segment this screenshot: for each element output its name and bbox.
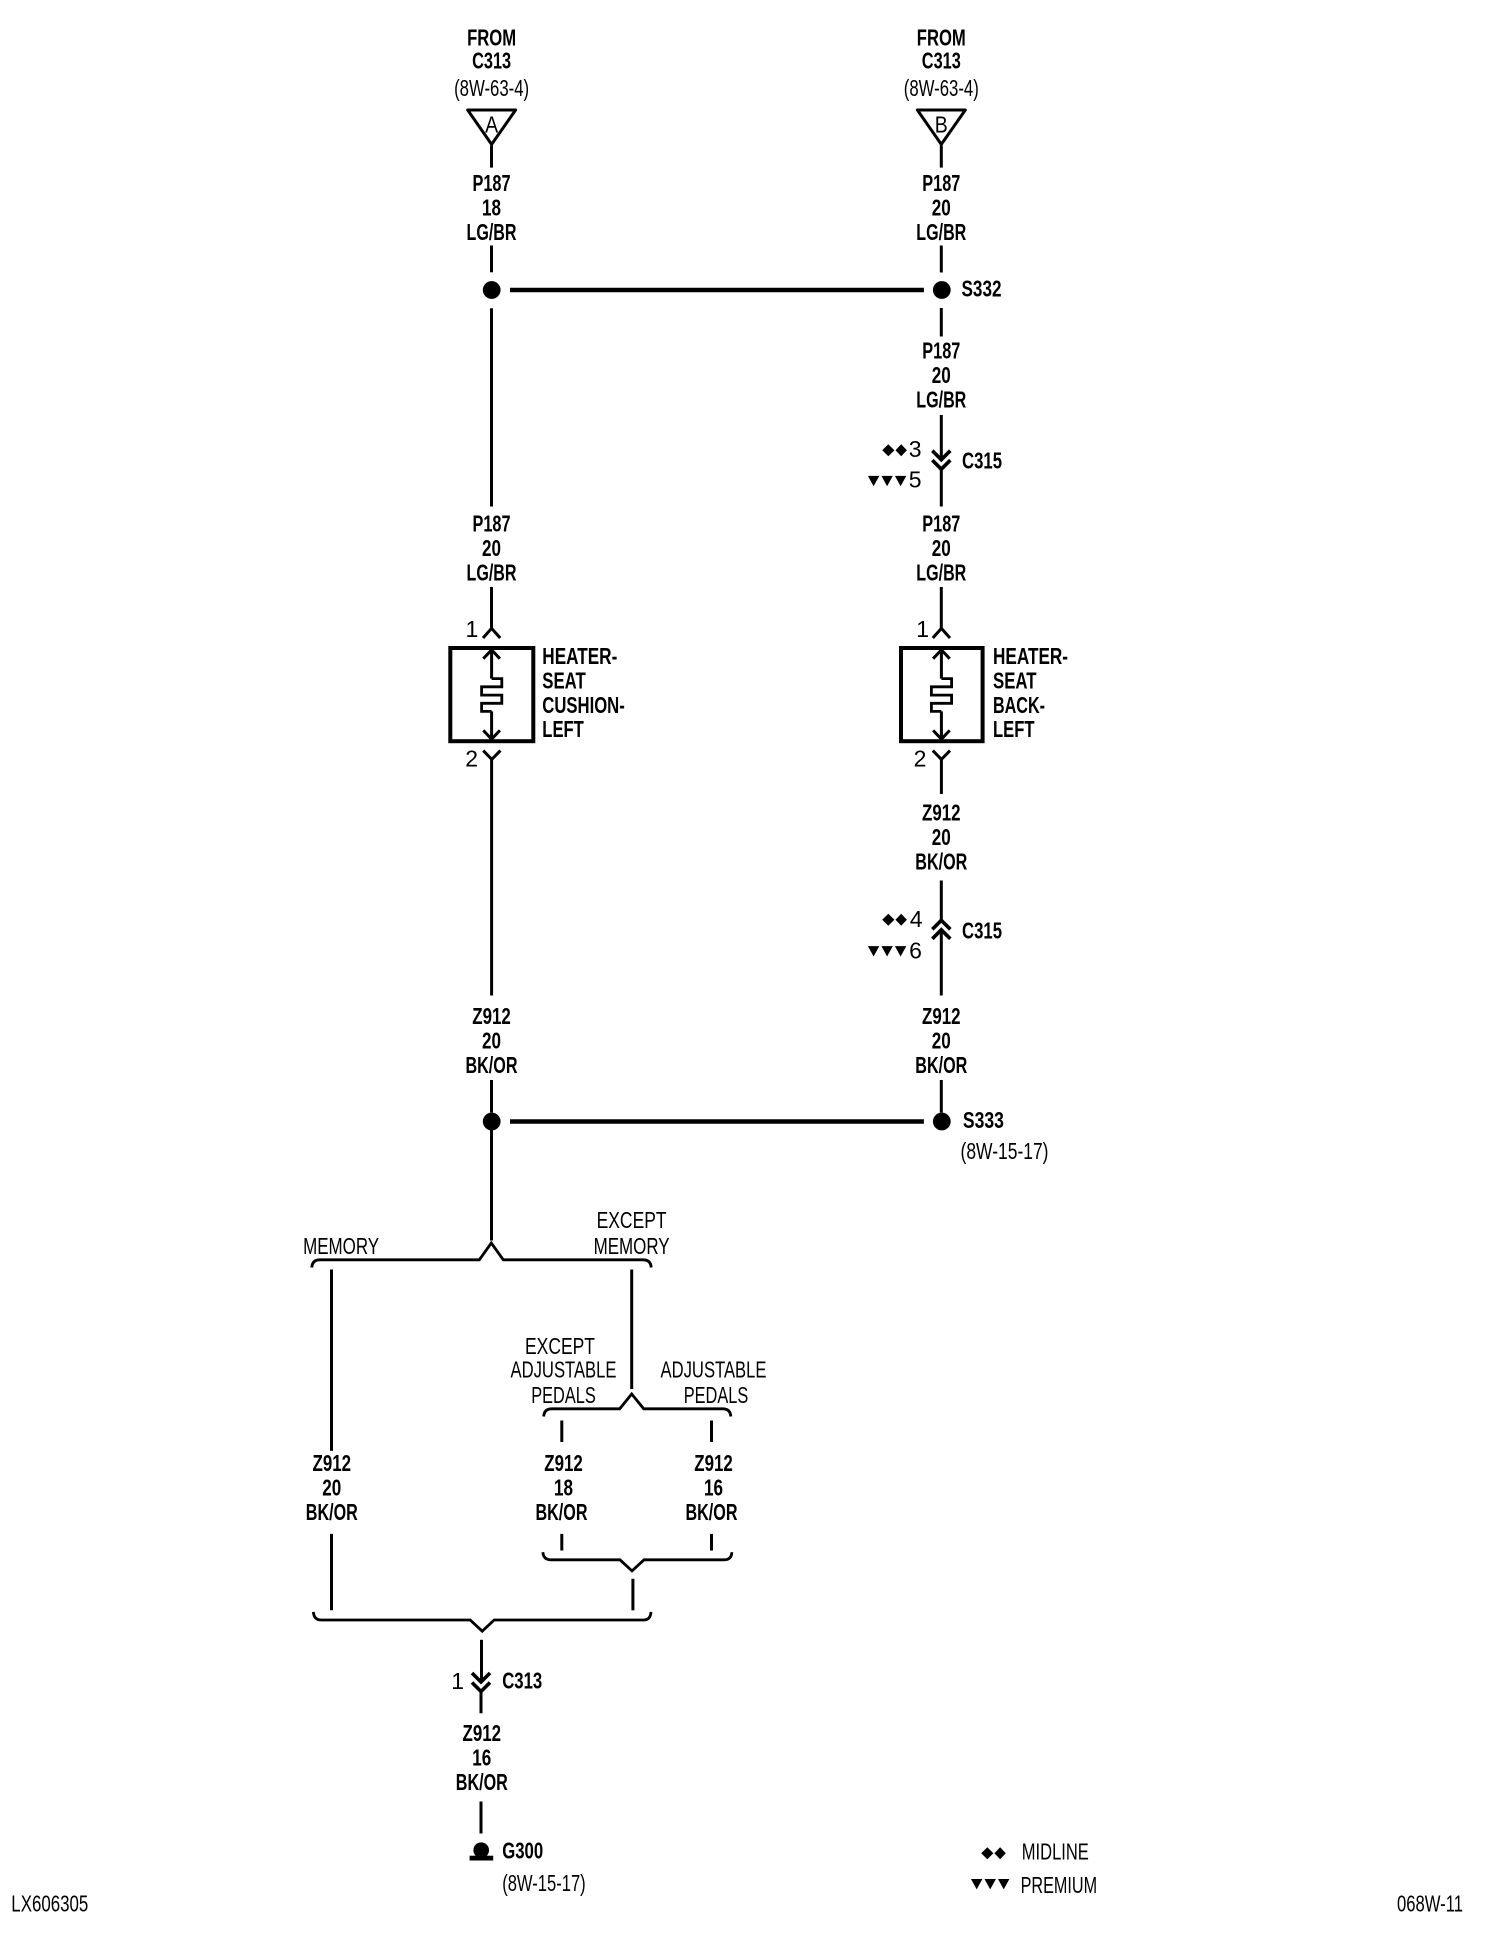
svg-text:BK/OR: BK/OR [466,1052,518,1078]
label heater-seat back-left [993,643,1068,742]
svg-text:Z912: Z912 [922,1003,961,1029]
svg-text:20: 20 [932,535,951,561]
wire except-memory branch [630,1270,633,1390]
wire except-pedals lower [560,1534,563,1551]
svg-text:LG/BR: LG/BR [916,219,966,245]
svg-text:Z912: Z912 [463,1720,502,1746]
svg-text:18: 18 [482,195,501,221]
svg-text:18: 18 [554,1475,573,1501]
brace final merge [313,1612,651,1631]
wire label to splice right [940,246,943,273]
svg-text:1: 1 [916,616,929,642]
svg-text:20: 20 [482,535,501,561]
wire label Z912 20 BK/OR right upper [915,800,967,875]
brace pedals merge [543,1552,732,1571]
connector C313 pin 1 [451,1667,542,1694]
wire S333 splice down to memory split [490,1129,493,1240]
wire label P187 18 LG/BR left [467,170,517,245]
wire below C315 lower [940,931,943,996]
pin 5 premium marker [868,467,922,493]
wire label Z912 20 BK/OR right lower [915,1003,967,1078]
pin 1 right heater back [916,616,950,642]
wire to left S333 splice [490,1080,493,1113]
label EXCEPT ADJUSTABLE PEDALS [511,1333,617,1408]
wire label P187 20 LG/BR right lower [916,511,966,586]
svg-text:MIDLINE: MIDLINE [1022,1839,1089,1865]
svg-text:P187: P187 [922,511,960,537]
svg-text:6: 6 [909,938,922,964]
svg-text:BK/OR: BK/OR [536,1499,588,1525]
svg-text:16: 16 [704,1475,723,1501]
svg-text:EXCEPT: EXCEPT [597,1207,667,1233]
brace memory split [312,1243,651,1268]
svg-text:(8W-63-4): (8W-63-4) [904,75,979,101]
wire memory branch lower [330,1534,333,1610]
svg-text:LG/BR: LG/BR [467,219,517,245]
wire pin 2 right down [940,759,943,794]
wire label P187 20 LG/BR right [916,170,966,245]
svg-text:BK/OR: BK/OR [456,1769,508,1795]
pin 2 right [914,746,950,772]
svg-text:PEDALS: PEDALS [531,1382,596,1408]
svg-text:PREMIUM: PREMIUM [1021,1872,1098,1898]
svg-text:MEMORY: MEMORY [303,1233,379,1259]
ground G300 [470,1838,586,1896]
svg-text:BK/OR: BK/OR [915,1052,967,1078]
svg-text:C313: C313 [922,48,961,74]
connector C315 pins 4/6 [932,920,950,939]
splice node left of S332 [483,281,501,299]
wire label to splice left [490,246,493,273]
wire merge to C313 [480,1640,483,1682]
svg-text:(8W-15-17): (8W-15-17) [961,1138,1049,1164]
svg-text:S332: S332 [962,276,1002,302]
svg-text:LEFT: LEFT [542,716,584,742]
wire bus S332 [510,288,924,293]
svg-text:20: 20 [932,195,951,221]
svg-text:(8W-63-4): (8W-63-4) [454,75,529,101]
wire to connector C315 pin 4 [940,881,943,921]
svg-text:Z912: Z912 [544,1450,583,1476]
svg-text:P187: P187 [473,170,511,196]
heater-seat back-left element U right [901,648,983,741]
svg-text:G300: G300 [502,1838,543,1864]
wire label Z912 16 BK/OR [686,1450,738,1525]
svg-text:ADJUSTABLE: ADJUSTABLE [511,1357,617,1383]
svg-text:LG/BR: LG/BR [467,560,517,586]
wire pedals merge down [631,1579,634,1611]
connector C315 pins 3/5 [932,451,950,470]
svg-text:PEDALS: PEDALS [684,1382,749,1408]
svg-text:B: B [935,111,948,137]
svg-text:2: 2 [465,746,478,772]
svg-text:HEATER-: HEATER- [993,643,1068,669]
svg-text:C313: C313 [502,1667,542,1693]
wire label Z912 20 BK/OR left [466,1003,518,1078]
svg-text:MEMORY: MEMORY [594,1233,670,1259]
wire to ground [480,1802,483,1834]
svg-text:C315: C315 [962,918,1002,944]
wire adjustable-pedals lower [710,1534,713,1551]
svg-text:LG/BR: LG/BR [916,387,966,413]
svg-text:P187: P187 [922,338,960,364]
svg-text:20: 20 [482,1028,501,1054]
wire label P187 20 LG/BR right mid [916,338,966,413]
svg-text:BK/OR: BK/OR [915,849,967,875]
svg-text:20: 20 [932,824,951,850]
svg-text:20: 20 [932,1028,951,1054]
off-page connector B [917,110,965,144]
svg-text:BK/OR: BK/OR [306,1499,358,1525]
header FROM C313 (8W-63-4) left [454,25,529,102]
pin 6 premium marker [868,938,922,964]
svg-text:068W-11: 068W-11 [1397,1890,1463,1916]
wire into pin 1 right [940,587,943,628]
wire into pin 1 left [490,587,493,628]
svg-text:ADJUSTABLE: ADJUSTABLE [661,1357,767,1383]
svg-text:P187: P187 [922,170,960,196]
svg-text:4: 4 [910,906,923,932]
splice node left of S333 [483,1113,501,1131]
svg-text:Z912: Z912 [694,1450,733,1476]
wire label Z912 18 BK/OR [536,1450,588,1525]
svg-text:20: 20 [322,1475,341,1501]
svg-text:Z912: Z912 [922,800,961,826]
off-page connector A [468,110,516,144]
svg-text:C313: C313 [472,48,511,74]
wire memory branch [330,1270,333,1451]
header FROM C313 (8W-63-4) right [904,25,979,102]
svg-text:CUSHION-: CUSHION- [542,692,625,718]
legend midline [981,1839,1089,1865]
wire below C315 [940,469,943,506]
wire label P187 20 LG/BR left lower [467,511,517,586]
svg-text:LX606305: LX606305 [11,1890,88,1916]
svg-text:1: 1 [466,616,479,642]
wire label Z912 16 BK/OR final [456,1720,508,1795]
svg-text:1: 1 [451,1668,464,1694]
wire bus S333 [510,1119,924,1124]
svg-text:3: 3 [909,436,922,462]
wire below S332 [940,308,943,337]
legend premium [971,1872,1097,1898]
brace pedals split [544,1394,731,1417]
wire B to label [940,146,943,168]
svg-text:HEATER-: HEATER- [542,643,617,669]
wire to right S333 splice [940,1080,943,1113]
splice S332 [933,276,1002,302]
wire label Z912 20 BK/OR memory [306,1450,358,1525]
svg-text:LEFT: LEFT [993,716,1035,742]
pin 3 midline marker [882,436,921,462]
svg-text:Z912: Z912 [472,1003,511,1029]
svg-text:S333: S333 [963,1107,1004,1133]
wire adjustable-pedals branch [710,1421,713,1443]
wire below C313 [480,1692,483,1714]
wire below left splice [490,308,493,506]
svg-text:20: 20 [932,362,951,388]
pin 1 left heater cushion [466,616,501,642]
wire except-pedals branch [560,1421,563,1443]
svg-text:C315: C315 [962,448,1002,474]
svg-text:P187: P187 [473,511,511,537]
wire pin 2 left down [490,759,493,995]
svg-text:(8W-15-17): (8W-15-17) [502,1870,586,1896]
label EXCEPT MEMORY [594,1207,670,1259]
label ADJUSTABLE PEDALS [661,1357,767,1409]
svg-text:5: 5 [909,467,922,493]
svg-text:BK/OR: BK/OR [686,1499,738,1525]
wire A to label [490,146,493,168]
svg-text:2: 2 [914,746,927,772]
svg-text:A: A [485,111,499,137]
splice S333 [933,1107,1049,1164]
svg-text:EXCEPT: EXCEPT [525,1333,595,1359]
svg-text:SEAT: SEAT [542,667,586,693]
svg-text:LG/BR: LG/BR [916,560,966,586]
svg-text:16: 16 [472,1745,491,1771]
wire to connector C315 pin 3 [940,415,943,459]
svg-text:SEAT: SEAT [993,667,1037,693]
svg-text:Z912: Z912 [313,1450,352,1476]
pin 2 left [465,746,500,772]
label heater-seat cushion-left [542,643,625,742]
pin 4 midline marker [882,906,923,932]
heater-seat cushion-left element U left [450,648,533,741]
svg-text:BACK-: BACK- [993,692,1045,718]
